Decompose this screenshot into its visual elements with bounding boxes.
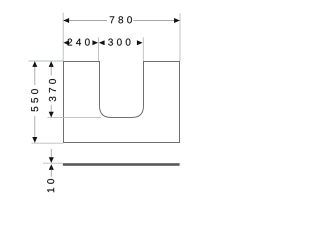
arrow 10 down: [49, 157, 54, 163]
extension line plate bottom: [32, 142, 64, 144]
extension line right edge: [179, 13, 181, 61]
arrow 300 left: [99, 40, 105, 45]
arrow 780 left: [63, 18, 69, 23]
side view plate 10mm: [63, 163, 180, 166]
extension line cutout bottom: [48, 116, 101, 118]
label 240: [68, 39, 90, 46]
arrow 240 left: [63, 40, 69, 45]
dimension 10 stub bottom: [50, 170, 52, 177]
arrow 550 bottom: [32, 137, 37, 143]
arrow 240 right: [92, 40, 98, 45]
console plate top view with U cutout: [64, 62, 180, 143]
arrow 370 top: [49, 61, 54, 67]
arrow 550 top: [32, 61, 37, 67]
dimension line 550: [34, 61, 36, 85]
dimension line 370: [50, 61, 52, 75]
label 370: [49, 79, 56, 101]
dimension 10 stub top: [50, 149, 52, 157]
arrow 370 bottom: [49, 112, 54, 118]
extension line side view top: [43, 162, 63, 164]
label 10: [47, 179, 54, 192]
extension line plate top: [29, 60, 64, 62]
extension line cutout left: [98, 37, 100, 61]
arrow 780 right: [174, 18, 180, 23]
arrow 10 up: [49, 164, 54, 170]
extension line cutout right: [142, 37, 144, 61]
label 300: [108, 39, 130, 46]
label 780: [110, 16, 132, 23]
extension line left edge: [62, 13, 64, 62]
arrow 300 right: [137, 40, 143, 45]
dimension line 780: [63, 20, 107, 22]
label 550: [31, 89, 38, 111]
